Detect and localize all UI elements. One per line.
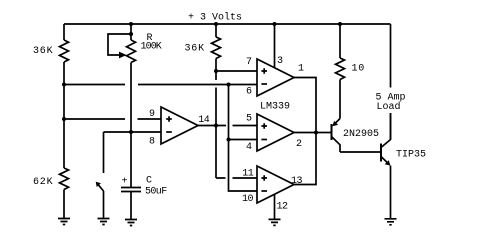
minus U1A xyxy=(261,83,267,85)
node bus A pin7 xyxy=(214,69,218,73)
node bus A out14 xyxy=(214,124,218,128)
Q2 emitter xyxy=(381,157,388,164)
svg-text:+: + xyxy=(122,176,128,187)
wire left branch top lead xyxy=(63,24,65,40)
Q1 emitter xyxy=(335,119,341,125)
ground G4 pin12 xyxy=(269,219,281,225)
wire pot top lead xyxy=(130,24,132,40)
arrowhead Q1 emitter xyxy=(332,121,338,126)
wire cap top lead xyxy=(130,132,132,187)
wire switch top lead xyxy=(103,132,105,173)
wire pot bottom lead xyxy=(130,63,132,133)
plus U1C xyxy=(261,175,267,181)
ground G2 switch xyxy=(98,219,110,225)
plus U1D xyxy=(166,116,172,122)
Q1 collector xyxy=(332,137,341,153)
wire 36K2 bottom lead xyxy=(215,59,217,72)
switch blade xyxy=(98,184,104,191)
wire bus A to pin 11 xyxy=(216,177,257,179)
plus U1B xyxy=(261,123,267,129)
resistor 62K xyxy=(60,168,69,190)
resistor 10 xyxy=(336,58,345,80)
minus U1C xyxy=(261,190,267,192)
transistor Q2 TIP35 base bar xyxy=(380,144,382,162)
svg-text:11: 11 xyxy=(242,169,254,180)
wire left branch middle xyxy=(63,62,65,168)
node cap pot pin8 xyxy=(129,130,133,134)
node divider tap upper xyxy=(62,83,66,87)
op-amp U1B middle comparator xyxy=(257,114,294,151)
svg-text:2: 2 xyxy=(296,139,302,150)
ground G1 xyxy=(58,219,70,225)
svg-text:5: 5 xyxy=(246,114,252,125)
svg-text:36K: 36K xyxy=(33,46,53,57)
wire 62K bottom lead xyxy=(63,190,65,219)
svg-text:10: 10 xyxy=(352,64,366,75)
wire pin 12 ground stem xyxy=(274,194,276,219)
node rail pot xyxy=(129,22,133,26)
Q2 collector xyxy=(381,113,391,148)
wire Q1 collector to Q2 base xyxy=(340,151,381,153)
ground G3 cap xyxy=(125,220,137,226)
arrowhead pot wiper xyxy=(119,52,127,59)
wire load upper lead xyxy=(390,24,392,88)
svg-text:TIP35: TIP35 xyxy=(396,150,426,161)
svg-text:50uF: 50uF xyxy=(145,186,167,197)
resistor 36K left xyxy=(60,40,69,62)
wire line B vertical and pin 10 xyxy=(229,85,258,192)
svg-text:LM339: LM339 xyxy=(260,102,290,113)
op-amp U1C bottom comparator xyxy=(257,166,294,203)
wire pin 7 xyxy=(216,70,257,72)
wire cap bottom lead xyxy=(130,192,132,220)
node divider tap lower xyxy=(62,117,66,121)
svg-text:10: 10 xyxy=(242,194,254,205)
wire 36K2 top lead xyxy=(215,24,217,37)
op-amp U1A top comparator xyxy=(257,59,294,96)
minus U1D xyxy=(166,131,172,133)
wire 10ohm bottom lead xyxy=(339,80,341,119)
svg-text:4: 4 xyxy=(246,142,252,153)
node rail 10ohm xyxy=(338,22,342,26)
node line B pin4 xyxy=(227,138,231,142)
wire pin 4 xyxy=(229,139,258,141)
node rail 36K2 xyxy=(214,22,218,26)
wire out2 xyxy=(294,132,316,134)
wire output bus xyxy=(294,78,316,185)
node line B top xyxy=(227,83,231,87)
svg-text:36K: 36K xyxy=(185,43,205,54)
node out bus base xyxy=(314,131,318,135)
wire pin 8 node y132 xyxy=(104,131,162,133)
arrowhead Q2 emitter xyxy=(385,160,391,165)
wire load lower lead xyxy=(390,113,392,140)
wire Q1 base xyxy=(316,132,332,134)
wire pin 3 supply xyxy=(274,24,276,68)
wire pot wiper xyxy=(108,34,131,55)
arrowhead switch xyxy=(96,182,101,187)
minus U1B xyxy=(261,139,267,141)
svg-text:1: 1 xyxy=(298,64,304,75)
wire switch bottom lead xyxy=(103,191,105,219)
wire Q2 emitter to ground xyxy=(390,166,392,219)
node pot wiper tie xyxy=(129,32,133,36)
wire out14 to pin5 xyxy=(198,125,257,127)
op-amp U1D left comparator xyxy=(161,107,198,144)
svg-text:7: 7 xyxy=(246,57,252,68)
plus U1A xyxy=(261,68,267,74)
node rail pin3 xyxy=(273,22,277,26)
svg-text:62K: 62K xyxy=(33,177,53,188)
wire plus tap y119 to pin 9 xyxy=(64,118,161,120)
svg-text:100K: 100K xyxy=(141,41,162,52)
svg-text:6: 6 xyxy=(246,87,252,98)
svg-text:8: 8 xyxy=(149,137,155,148)
transistor Q1 2N2905 base bar xyxy=(331,124,333,140)
wire +3V top rail xyxy=(64,23,391,25)
capacitor C 50uF plates xyxy=(121,188,141,192)
resistor 36K second xyxy=(212,37,221,59)
ground G5 xyxy=(385,219,397,225)
svg-text:+ 3 Volts: + 3 Volts xyxy=(188,11,242,23)
potentiometer R 100K xyxy=(127,40,136,63)
svg-text:3: 3 xyxy=(277,56,283,67)
wire minus bus y84.5 xyxy=(64,84,257,86)
svg-text:9: 9 xyxy=(149,109,155,120)
svg-text:13: 13 xyxy=(291,176,303,187)
svg-text:12: 12 xyxy=(277,201,289,212)
svg-text:2N2905: 2N2905 xyxy=(343,129,379,140)
svg-text:C: C xyxy=(146,176,152,187)
svg-text:14: 14 xyxy=(198,115,210,126)
svg-text:Load: Load xyxy=(377,101,401,113)
wire 10ohm top lead xyxy=(339,24,341,58)
wire bus A vertical xyxy=(215,71,217,178)
